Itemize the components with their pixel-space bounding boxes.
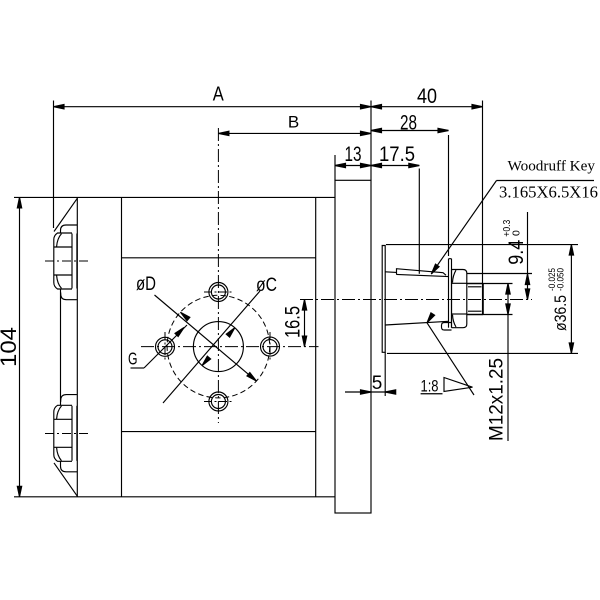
bolt hole left xyxy=(156,332,175,362)
shaft centerline xyxy=(300,299,532,301)
dim 28 xyxy=(371,128,449,256)
bolt hole bottom xyxy=(204,392,233,411)
mounting flange plate xyxy=(335,180,371,513)
svg-text:1:8: 1:8 xyxy=(421,377,439,396)
ear boss rail xyxy=(61,225,78,472)
svg-text:B: B xyxy=(288,113,299,132)
svg-text:3.165X6.5X16: 3.165X6.5X16 xyxy=(499,183,598,202)
svg-text:G: G xyxy=(128,349,138,369)
svg-text:Woodruff Key: Woodruff Key xyxy=(508,158,596,175)
threaded shaft end M12 xyxy=(467,284,483,315)
dia C dimension diagonal xyxy=(163,291,260,403)
dim 9.4 keyseat to centerline xyxy=(386,212,578,300)
stud nut top xyxy=(54,233,77,289)
shaft bore circle xyxy=(193,322,243,372)
dim dia 36.5 xyxy=(387,245,578,354)
svg-text:0: 0 xyxy=(511,230,523,236)
svg-text:17.5: 17.5 xyxy=(379,143,415,166)
svg-text:øD: øD xyxy=(136,274,156,295)
dim 13 and 17.5 xyxy=(335,155,419,274)
svg-text:104: 104 xyxy=(0,327,21,367)
front view vertical centerline xyxy=(217,128,219,423)
woodruff key xyxy=(397,269,447,276)
woodruff key callout leader xyxy=(429,181,594,276)
dim 104 xyxy=(17,197,21,496)
stud nut centerline top xyxy=(45,260,88,262)
tab washer xyxy=(442,259,452,330)
svg-text:28: 28 xyxy=(400,112,417,135)
shaft nut xyxy=(452,270,467,328)
shaft seal spigot plate xyxy=(382,246,385,353)
bolt pitch circle xyxy=(167,295,270,398)
stud nut bottom xyxy=(54,405,77,461)
svg-text:16.5: 16.5 xyxy=(282,306,305,338)
dim 16.5 xyxy=(302,300,306,347)
svg-text:40: 40 xyxy=(417,85,437,108)
svg-text:9.4: 9.4 xyxy=(505,240,528,265)
dim M12 thread xyxy=(483,284,513,442)
taper 1:8 leader xyxy=(421,313,474,395)
dim 40 xyxy=(371,101,483,316)
stud nut centerline bottom xyxy=(45,433,88,435)
svg-text:M12x1.25: M12x1.25 xyxy=(487,358,508,441)
bolt hole top xyxy=(204,283,233,302)
svg-text:5: 5 xyxy=(372,373,383,394)
dim A xyxy=(54,101,372,229)
rear cover plate edge xyxy=(76,197,78,496)
tapered shaft bottom edge xyxy=(385,321,448,325)
svg-text:ø36.5: ø36.5 xyxy=(552,295,570,331)
svg-text:-0.050: -0.050 xyxy=(556,268,566,291)
dim 5 xyxy=(345,352,396,396)
bolt hole right xyxy=(261,332,280,362)
ear chamfer top xyxy=(54,198,77,231)
tapered shaft top edge xyxy=(385,271,396,274)
svg-text:øC: øC xyxy=(256,275,277,296)
ear chamfer bottom xyxy=(54,463,77,496)
dim B xyxy=(218,131,371,135)
front view horizontal centerline xyxy=(141,346,319,348)
front face plate rectangle xyxy=(122,257,316,259)
keyway seat line xyxy=(396,274,448,276)
pump body outline xyxy=(14,196,335,198)
dia D dimension diagonal xyxy=(155,295,258,383)
svg-text:13: 13 xyxy=(345,143,362,166)
G leader xyxy=(131,325,188,368)
svg-text:A: A xyxy=(213,84,225,106)
